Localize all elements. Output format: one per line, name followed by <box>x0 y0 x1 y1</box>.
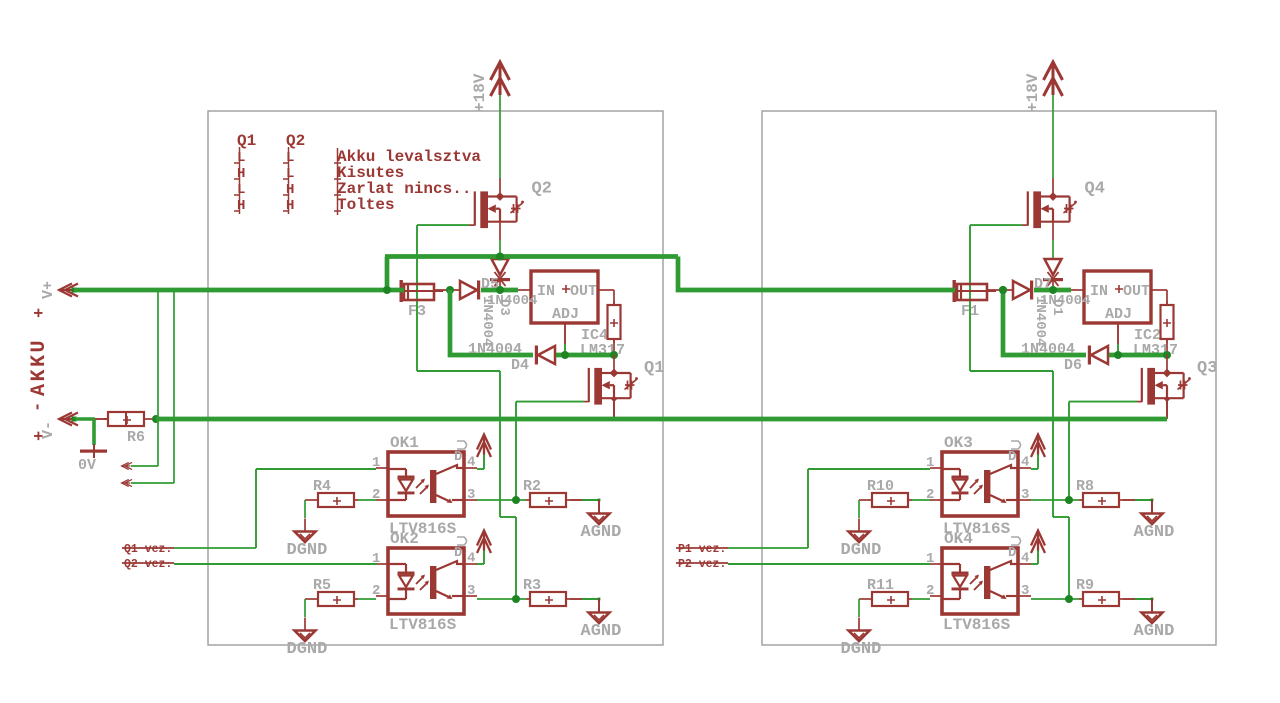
svg-text:V+: V+ <box>40 281 57 299</box>
svg-text:Q2: Q2 <box>532 180 552 199</box>
svg-text:1N4004: 1N4004 <box>1032 296 1048 346</box>
svg-text:3: 3 <box>1021 487 1029 503</box>
svg-text:R3: R3 <box>523 577 541 594</box>
svg-text:R10: R10 <box>867 478 894 495</box>
svg-text:IN: IN <box>1090 283 1108 300</box>
svg-text:IN: IN <box>537 283 555 300</box>
svg-text:D3: D3 <box>496 299 512 316</box>
svg-text:3: 3 <box>467 487 475 503</box>
svg-text:AGND: AGND <box>1134 523 1175 542</box>
svg-text:D: D <box>1008 449 1016 465</box>
svg-text:ADJ: ADJ <box>1105 306 1132 323</box>
svg-text:Q4: Q4 <box>1085 180 1105 199</box>
svg-text:D6: D6 <box>1064 357 1082 374</box>
svg-text:OUT: OUT <box>1123 283 1150 300</box>
svg-text:LTV816S: LTV816S <box>389 616 457 634</box>
svg-text:4: 4 <box>467 455 475 471</box>
svg-text:F3: F3 <box>408 303 426 320</box>
svg-text:R4: R4 <box>313 478 331 495</box>
svg-text:ADJ: ADJ <box>552 306 579 323</box>
svg-text:D1: D1 <box>1049 299 1065 316</box>
svg-text:D: D <box>454 449 462 465</box>
svg-text:F1: F1 <box>961 303 979 320</box>
svg-text:+: + <box>31 431 50 441</box>
svg-text:1N4004: 1N4004 <box>479 296 495 346</box>
svg-text:Q3: Q3 <box>1197 359 1217 378</box>
svg-text:DGND: DGND <box>841 640 882 659</box>
svg-text:DGND: DGND <box>287 541 328 560</box>
svg-text:P1 vez.: P1 vez. <box>678 543 726 556</box>
svg-text:OUT: OUT <box>570 283 597 300</box>
svg-text:AGND: AGND <box>1134 622 1175 641</box>
svg-text:OK3: OK3 <box>944 434 973 452</box>
svg-text:P2 vez.: P2 vez. <box>678 558 726 571</box>
svg-text:Toltes: Toltes <box>337 196 395 214</box>
svg-text:LTV816S: LTV816S <box>943 616 1011 634</box>
svg-text:4: 4 <box>467 551 475 567</box>
svg-text:3: 3 <box>467 583 475 599</box>
svg-text:1N4004: 1N4004 <box>468 341 522 358</box>
svg-text:+18V: +18V <box>1024 73 1042 112</box>
svg-text:OK4: OK4 <box>944 530 973 548</box>
svg-text:OK2: OK2 <box>390 530 419 548</box>
svg-text:Q2 vez.: Q2 vez. <box>124 558 172 571</box>
svg-text:AGND: AGND <box>581 523 622 542</box>
svg-text:Q1 vez.: Q1 vez. <box>124 543 172 556</box>
svg-text:DGND: DGND <box>287 640 328 659</box>
svg-text:+: + <box>31 308 50 318</box>
svg-text:2: 2 <box>372 583 380 599</box>
svg-text:D5: D5 <box>481 276 499 293</box>
svg-text:2: 2 <box>926 583 934 599</box>
svg-text:R11: R11 <box>867 577 894 594</box>
svg-text:+18V: +18V <box>471 73 489 112</box>
svg-text:D4: D4 <box>511 357 529 374</box>
svg-text:4: 4 <box>1021 455 1029 471</box>
svg-text:AGND: AGND <box>581 622 622 641</box>
svg-text:1N4004: 1N4004 <box>1021 341 1075 358</box>
svg-text:D7: D7 <box>1034 276 1052 293</box>
svg-text:4: 4 <box>1021 551 1029 567</box>
svg-text:DGND: DGND <box>841 541 882 560</box>
svg-text:-: - <box>29 402 48 412</box>
svg-text:D: D <box>454 545 462 561</box>
svg-text:AKKU: AKKU <box>28 338 51 396</box>
svg-text:R6: R6 <box>127 429 145 446</box>
svg-text:Q1: Q1 <box>644 359 664 378</box>
svg-text:3: 3 <box>1021 583 1029 599</box>
svg-text:R8: R8 <box>1076 478 1094 495</box>
svg-text:R2: R2 <box>523 478 541 495</box>
svg-text:R5: R5 <box>313 577 331 594</box>
svg-text:R9: R9 <box>1076 577 1094 594</box>
svg-text:OK1: OK1 <box>390 434 419 452</box>
svg-text:D: D <box>1008 545 1016 561</box>
svg-text:0V: 0V <box>78 457 96 474</box>
